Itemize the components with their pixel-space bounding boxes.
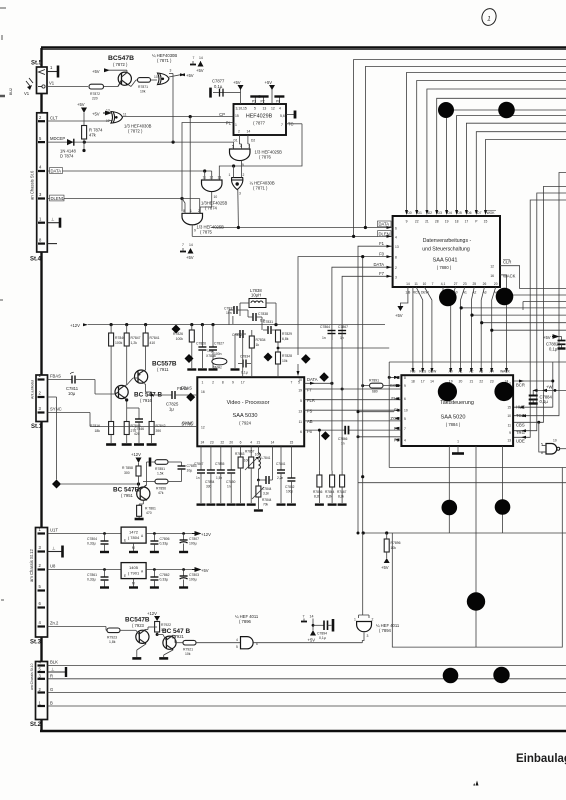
svg-text:1472: 1472 — [129, 530, 139, 535]
svg-text:7c: 7c — [187, 357, 191, 361]
wire U1T — [48, 528, 122, 534]
capacitor C7804 0,33u — [87, 534, 109, 553]
svg-text:3: 3 — [170, 69, 172, 73]
svg-text:21: 21 — [470, 380, 474, 384]
resistor R7861 470 emitter load — [135, 501, 156, 520]
IC SAA5020 Taktsteuerung 7884 — [401, 375, 513, 446]
svg-text:G: G — [50, 687, 53, 692]
test point diamond 7h — [321, 431, 330, 440]
svg-text:( 7874: ( 7874 — [205, 206, 218, 211]
wire A3 net with junction to right edge — [480, 287, 566, 370]
resistor R7841 410 — [143, 325, 160, 370]
svg-text:100k: 100k — [176, 337, 184, 341]
svg-text:R7829: R7829 — [282, 332, 292, 336]
regulator2 ground pin — [129, 579, 138, 588]
svg-text:6,8k: 6,8k — [282, 337, 289, 341]
svg-text:1,8k: 1,8k — [109, 640, 116, 644]
svg-text:am Chassis St.10: am Chassis St.10 — [30, 663, 34, 690]
svg-text:5: 5 — [404, 417, 406, 421]
resistor R7856 47k — [143, 479, 182, 495]
svg-text:WACK: WACK — [503, 274, 516, 279]
svg-text:DLEN1: DLEN1 — [51, 196, 65, 201]
gate C 1/4 HEF4030B 7871 (XOR mid) — [229, 161, 275, 230]
svg-text:7: 7 — [432, 282, 434, 286]
svg-text:C7806: C7806 — [160, 537, 170, 541]
capacitor C7825 1u FBAS coupling — [166, 386, 197, 412]
wire loop left vertical — [388, 362, 390, 468]
svg-text:7: 7 — [182, 243, 184, 247]
svg-text:13: 13 — [218, 176, 222, 180]
SAA5030 bottom pin numbers — [201, 441, 294, 445]
svg-text:D3: D3 — [438, 211, 442, 215]
wire F/B net with +5V stub — [395, 287, 413, 370]
svg-text:B: B — [50, 701, 53, 706]
svg-text:+5V: +5V — [92, 69, 100, 74]
svg-text:R7872: R7872 — [90, 92, 100, 96]
wire U1T through regulator to +12V — [103, 532, 192, 535]
svg-text:1n: 1n — [341, 441, 345, 445]
svg-text:9: 9 — [406, 220, 408, 224]
svg-text:0,1µ: 0,1µ — [319, 636, 326, 640]
svg-text:100p: 100p — [286, 490, 293, 494]
gate 1/4 HEF4011 7894 — [354, 533, 400, 643]
svg-text:V1: V1 — [24, 91, 30, 96]
svg-text:C7841: C7841 — [276, 462, 286, 466]
SAA5041 bottom pin labels — [405, 291, 497, 295]
svg-text:+12V: +12V — [131, 452, 141, 457]
svg-text:5: 5 — [300, 399, 302, 403]
+5V output arrow — [192, 568, 209, 573]
svg-text:an Chassis St.6: an Chassis St.6 — [30, 170, 35, 200]
svg-text:18k: 18k — [95, 429, 101, 433]
wire CLR net — [500, 266, 566, 289]
svg-text:47k: 47k — [158, 491, 164, 495]
wire A4 net with junction to right edge — [490, 287, 566, 370]
svg-text:1µ: 1µ — [169, 407, 174, 412]
svg-text:0,33µ: 0,33µ — [160, 542, 169, 546]
capacitor C7877 0,1u — [211, 79, 241, 98]
svg-text:9: 9 — [509, 431, 511, 435]
svg-text:D2: D2 — [428, 211, 432, 215]
wire bus D6 — [466, 123, 566, 210]
wire bus D5 — [457, 116, 566, 211]
wire TRG net — [514, 193, 566, 432]
ground row under cluster — [187, 368, 239, 370]
svg-text:+5V: +5V — [92, 112, 100, 117]
svg-text:5: 5 — [254, 107, 256, 111]
wire DLEN into pin4 — [192, 231, 392, 238]
svg-text:8,2k: 8,2k — [338, 495, 344, 499]
wire HUE net from loop drop — [514, 362, 553, 409]
svg-text:7: 7 — [193, 56, 195, 60]
coil L7841 — [257, 446, 271, 481]
svg-text:10: 10 — [553, 439, 557, 443]
connector St.5 — [31, 61, 47, 94]
wire bus DLEN net from right edge — [354, 60, 566, 237]
svg-text:22: 22 — [479, 380, 483, 384]
svg-text:10: 10 — [423, 282, 427, 286]
svg-text:UDE: UDE — [516, 438, 525, 443]
svg-text:( 7916: ( 7916 — [140, 398, 153, 403]
IC SAA5030 Video-Processor 7924 — [197, 377, 304, 446]
svg-text:+12V: +12V — [70, 323, 80, 328]
svg-text:19: 19 — [445, 220, 449, 224]
svg-text:13: 13 — [507, 438, 511, 442]
resistor R7923 1,8k — [107, 628, 136, 644]
svg-text:R7891: R7891 — [369, 379, 379, 383]
svg-text:P2: P2 — [261, 100, 265, 104]
svg-text:23: 23 — [210, 441, 214, 445]
svg-text:R 7861: R 7861 — [145, 507, 156, 511]
svg-text:1: 1 — [235, 123, 237, 127]
svg-text:D 7874: D 7874 — [60, 154, 74, 159]
svg-text:C7862: C7862 — [160, 573, 170, 577]
svg-text:C7861: C7861 — [87, 573, 97, 577]
svg-text:5: 5 — [236, 645, 238, 649]
svg-text:17: 17 — [241, 381, 245, 385]
svg-text:2: 2 — [243, 173, 245, 177]
page frame bottom border — [40, 730, 566, 732]
svg-text:5: 5 — [232, 145, 234, 149]
svg-text:1405: 1405 — [129, 565, 139, 570]
wire right frame loop — [392, 468, 562, 648]
capacitor C7834 0,1u — [238, 355, 251, 375]
transistor Q BC557B 7911 — [127, 361, 177, 393]
wire SYNC into SAA5030 pin12 — [90, 413, 197, 427]
svg-text:27: 27 — [454, 282, 458, 286]
capacitor C7826 10u — [196, 325, 213, 368]
svg-text:19: 19 — [298, 389, 302, 393]
svg-text:C7804: C7804 — [87, 537, 97, 541]
svg-text:0,1µ: 0,1µ — [241, 371, 248, 375]
svg-text:680: 680 — [372, 390, 378, 394]
stray ink mark below border — [473, 781, 478, 786]
wire BLK — [48, 660, 566, 666]
arrowheads into SAA5020 left pins — [394, 376, 399, 441]
svg-text:R7846: R7846 — [115, 336, 125, 340]
svg-text:9: 9 — [404, 384, 406, 388]
svg-text:4: 4 — [395, 235, 397, 239]
svg-text:2,2n: 2,2n — [277, 476, 283, 480]
svg-text:⊥: ⊥ — [52, 546, 56, 551]
capacitor C7841 2,2n — [276, 446, 286, 504]
svg-text:20: 20 — [229, 441, 233, 445]
wire below SAA5020 full width — [389, 467, 566, 469]
gate 1/4 HEF4011 7885 corner — [541, 439, 566, 456]
diode 1N4148 D7874 on MDCEP — [60, 139, 77, 159]
wire UDE net — [514, 200, 566, 439]
wire U8 — [48, 564, 122, 570]
wire 7a line to emitter follower base — [61, 482, 140, 485]
svg-text:St.1: St.1 — [31, 424, 43, 430]
svg-text:C7867: C7867 — [338, 325, 348, 329]
svg-text:BLK: BLK — [50, 660, 58, 665]
wire DATA out of SAA5030 to DATA2 net — [304, 382, 333, 385]
svg-text:28: 28 — [435, 220, 439, 224]
svg-text:+5V: +5V — [233, 80, 241, 85]
gate 1/3 HEF4030B 7872 (CLT gate) — [106, 109, 152, 134]
wire emitter 7916 to FBAS out node — [146, 392, 172, 404]
svg-text:25: 25 — [472, 282, 476, 286]
junction blob on R line right — [493, 667, 509, 683]
wire DATA2 net to pin2 — [332, 267, 393, 471]
svg-text:DATA: DATA — [379, 222, 390, 227]
SAA5020 left pins — [390, 375, 408, 442]
resistor R7896 10k pullup — [362, 531, 401, 570]
svg-text:1: 1 — [190, 209, 192, 213]
svg-text:SYNC: SYNC — [182, 421, 194, 426]
page number circle 1 — [480, 7, 498, 27]
capacitor C7838 6,8 — [248, 310, 268, 324]
svg-text:C7803: C7803 — [189, 573, 199, 577]
svg-text:D1: D1 — [234, 139, 238, 143]
junction blob WACK line — [496, 288, 514, 306]
svg-text:13: 13 — [298, 410, 302, 414]
svg-text:P3: P3 — [252, 100, 256, 104]
capacitor C7847 1n — [194, 446, 206, 504]
wire R — [48, 673, 566, 679]
wire CBS net — [514, 187, 566, 453]
transistor Q BC547B 7951 — [113, 484, 150, 501]
svg-text:St.4: St.4 — [30, 257, 42, 263]
svg-text:SAA 5041: SAA 5041 — [433, 258, 458, 264]
svg-text:7f: 7f — [304, 358, 307, 362]
svg-text:WACK: WACK — [500, 370, 511, 374]
svg-text:4: 4 — [279, 107, 281, 111]
wire PL line from loop — [388, 376, 399, 379]
svg-text:AB: AB — [307, 419, 313, 424]
wire FBAS from St.1 — [48, 374, 71, 380]
svg-text:18: 18 — [411, 380, 415, 384]
svg-text:C7807: C7807 — [189, 537, 199, 541]
wire CLT — [48, 116, 107, 122]
svg-text:C7826: C7826 — [196, 342, 206, 346]
junction blob inside SAA5020 right — [494, 382, 513, 401]
svg-text:D5: D5 — [457, 211, 461, 215]
wire DATA — [48, 168, 212, 174]
svg-text:SAA 5030: SAA 5030 — [233, 413, 258, 419]
svg-text:6: 6 — [300, 430, 302, 434]
svg-text:1: 1 — [487, 16, 491, 23]
wire FT net — [304, 388, 401, 391]
SAA5041 right pins CLR WACK — [490, 260, 515, 279]
svg-text:14: 14 — [271, 441, 275, 445]
svg-text:R7856: R7856 — [156, 487, 166, 491]
svg-text:( 7896: ( 7896 — [239, 619, 252, 624]
resistor R7848 270 — [122, 398, 141, 444]
svg-text:8: 8 — [395, 256, 397, 260]
svg-text:220: 220 — [92, 97, 98, 101]
svg-text:( 7924: ( 7924 — [239, 421, 252, 426]
wire TCZ net — [514, 173, 566, 418]
svg-text:10k: 10k — [185, 652, 191, 656]
test point diamond 7e — [264, 353, 273, 362]
svg-text:( 7951: ( 7951 — [121, 493, 134, 498]
wire U8 through regulator to +5V — [103, 568, 192, 571]
resistor R7816 18k — [90, 420, 116, 445]
svg-text:C7894: C7894 — [317, 632, 327, 636]
svg-text:+5V: +5V — [381, 565, 389, 570]
svg-text:4: 4 — [236, 638, 238, 642]
svg-text:14: 14 — [199, 56, 203, 60]
svg-text:14: 14 — [406, 282, 410, 286]
wire pin 4,1 stub — [442, 287, 445, 301]
svg-text:13: 13 — [395, 245, 399, 249]
svg-text:0,1µ: 0,1µ — [214, 84, 223, 89]
svg-text:St.5: St.5 — [31, 61, 43, 67]
wire F0 net to pin8 — [297, 255, 393, 533]
wire V1 — [47, 81, 88, 87]
wire bus DATA net from right edge — [365, 67, 566, 228]
svg-text:23: 23 — [463, 282, 467, 286]
wire TRG drop to y533 — [448, 446, 450, 533]
svg-text:C7864: C7864 — [320, 325, 330, 329]
svg-text:7a: 7a — [55, 483, 59, 487]
transistor Q BC547B 7872 — [108, 55, 134, 87]
svg-text:22: 22 — [415, 220, 419, 224]
svg-text:0,33µ: 0,33µ — [87, 578, 96, 582]
svg-text:BU2: BU2 — [9, 88, 13, 95]
svg-text:P0: P0 — [276, 100, 280, 104]
svg-text:+5V: +5V — [77, 102, 85, 107]
page frame top border — [41, 48, 566, 50]
svg-text:+5V: +5V — [395, 313, 403, 318]
svg-text:4: 4 — [250, 441, 252, 445]
svg-text:10k: 10k — [391, 546, 397, 550]
svg-text:Video - Processor: Video - Processor — [227, 400, 270, 406]
SAA5020 right pins — [507, 382, 525, 443]
wire CLT into gate pin12 — [106, 120, 112, 123]
svg-text:6: 6 — [404, 397, 406, 401]
test point diamond 7d — [172, 325, 181, 334]
wire MDCEP — [48, 136, 234, 144]
resistor R7842 390 — [147, 404, 166, 445]
svg-text:7: 7 — [303, 615, 305, 619]
svg-text:( 7876: ( 7876 — [259, 155, 272, 160]
svg-text:+5V: +5V — [308, 638, 316, 643]
svg-text:U1T: U1T — [50, 528, 58, 533]
connector St.1 — [31, 373, 48, 430]
capacitor C7855 1,5n — [215, 446, 225, 504]
svg-text:DATA: DATA — [307, 377, 318, 382]
svg-text:BCR: BCR — [516, 382, 525, 387]
svg-text:11: 11 — [508, 424, 512, 428]
St.3 pin3 ground stub — [48, 546, 63, 558]
resistor R7846 100k — [109, 325, 126, 420]
resistor R7872 220 — [89, 84, 118, 100]
wire PL net: HEF4029B pin1 to left and down — [182, 123, 234, 212]
svg-text:U8: U8 — [50, 564, 56, 569]
svg-text:R 7858: R 7858 — [122, 466, 133, 470]
svg-text:6: 6 — [395, 227, 397, 231]
svg-text:14: 14 — [430, 380, 434, 384]
St.2 pin5 ground stub — [48, 667, 67, 678]
svg-text:F7: F7 — [379, 271, 385, 276]
resistor R7866 8,2k — [313, 429, 324, 505]
svg-text:Einbaulag: Einbaulag — [516, 753, 566, 765]
svg-text:F1: F1 — [379, 241, 385, 246]
junction blob x476 — [467, 592, 485, 610]
svg-text:C7877: C7877 — [212, 79, 225, 84]
svg-text:14: 14 — [310, 615, 314, 619]
resistor R7834 — [249, 330, 265, 377]
HEF4029B pin12 +5V feed — [265, 80, 276, 104]
svg-text:R7828: R7828 — [282, 354, 292, 358]
svg-text:10µ: 10µ — [68, 391, 76, 396]
svg-text:L7841: L7841 — [262, 456, 271, 460]
svg-text:410: 410 — [150, 341, 156, 345]
wire bus D4 — [447, 110, 566, 210]
svg-text:SYNC: SYNC — [50, 407, 62, 412]
svg-text:47k: 47k — [89, 133, 97, 138]
gate B 1/3 HEF4025B 7874 — [200, 171, 227, 213]
svg-text:26: 26 — [483, 282, 487, 286]
St.4 pin8 stub — [48, 243, 58, 245]
svg-text:1n: 1n — [196, 476, 200, 480]
wire AB net — [304, 420, 401, 422]
svg-text:R7847: R7847 — [131, 336, 141, 340]
svg-text:R7864: R7864 — [325, 490, 335, 494]
svg-text:7: 7 — [281, 123, 283, 127]
+12V output arrow — [192, 532, 211, 537]
regulator ground pin — [129, 543, 138, 552]
svg-text:12: 12 — [271, 107, 275, 111]
svg-text:R7921: R7921 — [183, 648, 193, 652]
svg-text:R: R — [50, 673, 53, 678]
transistor Q BC547B 7923 — [125, 617, 150, 659]
SAA5030 right pins — [298, 377, 317, 434]
svg-text:C7827: C7827 — [214, 342, 224, 346]
left margin marks — [0, 8, 6, 600]
SAA5020 top pin labels — [410, 370, 510, 374]
wire B — [48, 701, 566, 707]
svg-text:R7844: R7844 — [262, 498, 272, 502]
svg-text:2: 2 — [212, 381, 214, 385]
svg-text:+5V: +5V — [265, 80, 273, 85]
wire CBS drop to y533 — [502, 446, 504, 533]
svg-text:1,5k: 1,5k — [157, 472, 164, 476]
test point diamond 7c — [185, 354, 194, 363]
svg-text:V1: V1 — [49, 81, 55, 86]
svg-text:300: 300 — [124, 471, 130, 475]
svg-text:10: 10 — [298, 378, 302, 382]
svg-text:( 7884 ): ( 7884 ) — [446, 422, 461, 427]
wire A2 net with junction to right edge — [470, 287, 566, 370]
svg-text:22: 22 — [220, 441, 224, 445]
svg-text:+5V: +5V — [186, 73, 194, 78]
+5V arrow into CLT gate pin13 — [92, 111, 112, 116]
St.4 pin1 ground stub — [48, 217, 61, 228]
resistor R7867 8,2k — [337, 471, 347, 505]
SAA5030 top pin numbers — [201, 381, 300, 385]
svg-text:21: 21 — [257, 441, 261, 445]
coil L7838 10uH — [240, 288, 276, 308]
SAA5030 left pins — [177, 386, 205, 430]
svg-text:21: 21 — [425, 220, 429, 224]
svg-text:3,10,15: 3,10,15 — [236, 107, 247, 111]
wire CP net: gate7872 output to HEF4029B pin15 — [123, 115, 234, 118]
capacitor C7882 0,1u — [543, 335, 566, 352]
svg-text:( 7804: ( 7804 — [128, 535, 140, 540]
svg-text:C7854: C7854 — [205, 480, 215, 484]
capacitor C7806 0,33u — [150, 534, 170, 553]
svg-text:⊥: ⊥ — [51, 667, 55, 672]
svg-text:18: 18 — [455, 220, 459, 224]
svg-text:R7923: R7923 — [107, 636, 117, 640]
SAA5020 top pin numbers — [411, 380, 508, 384]
svg-text:1n: 1n — [322, 336, 326, 340]
svg-text:15: 15 — [290, 441, 294, 445]
